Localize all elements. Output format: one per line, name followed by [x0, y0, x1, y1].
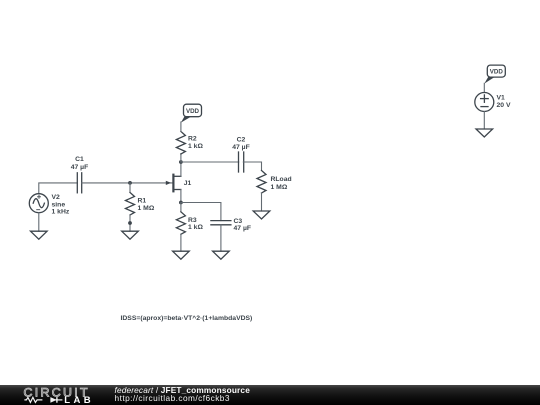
svg-text:R1: R1: [138, 197, 147, 204]
ground below RLoad: [253, 211, 270, 219]
wire from V2 top to C1 left: [39, 183, 78, 194]
wire source to C3: [181, 203, 221, 221]
VDD flag at R2: [181, 104, 202, 122]
svg-text:47 µF: 47 µF: [234, 225, 252, 232]
label R1: [138, 197, 155, 212]
wire from C1 to J1 gate: [82, 182, 173, 184]
svg-text:J1: J1: [184, 180, 192, 187]
label RLoad: [271, 176, 292, 191]
attribution text: [115, 386, 250, 403]
wire V2 bottom: [38, 213, 40, 232]
svg-text:20 V: 20 V: [497, 102, 511, 109]
ground below R1: [122, 231, 139, 239]
svg-text:VDD: VDD: [186, 108, 200, 115]
svg-text:R2: R2: [188, 136, 197, 143]
svg-text:LAB: LAB: [64, 395, 94, 405]
svg-text:1 MΩ: 1 MΩ: [271, 184, 288, 191]
ground below V1: [476, 129, 493, 137]
svg-text:V2: V2: [52, 194, 61, 201]
wire R1 bottom: [129, 215, 131, 231]
wire R2 top to VDD flag: [180, 122, 182, 132]
label R3: [188, 217, 203, 231]
label C2: [232, 137, 250, 152]
svg-text:47 µF: 47 µF: [232, 144, 250, 151]
svg-text:IDSS=(aprox)=beta·VT^2·(1+lamb: IDSS=(aprox)=beta·VT^2·(1+lambdaVDS): [121, 314, 253, 322]
wire R1 top: [129, 183, 131, 193]
svg-text:VDD: VDD: [490, 68, 504, 75]
capacitor C1: [77, 173, 81, 193]
footer bar: [0, 385, 540, 405]
wire J1 source down: [180, 190, 182, 203]
svg-text:1 kΩ: 1 kΩ: [188, 143, 203, 150]
wire V1 bottom: [483, 112, 485, 130]
svg-text:47 µF: 47 µF: [71, 164, 89, 171]
CircuitLab logo: [0, 385, 100, 405]
wire VDD to V1: [483, 83, 485, 92]
wire C3 bottom: [220, 225, 222, 251]
svg-text:1 MΩ: 1 MΩ: [138, 205, 155, 212]
svg-text:1 kΩ: 1 kΩ: [188, 224, 203, 231]
wire R3 bottom: [180, 234, 182, 251]
node at R1 bottom: [128, 221, 132, 225]
wire J1 drain up: [180, 162, 182, 176]
node source: [179, 201, 183, 205]
capacitor C3: [211, 221, 231, 225]
transistor J1: [166, 175, 181, 192]
label C3: [234, 218, 252, 232]
ground below C3: [213, 251, 230, 259]
source V2: [29, 194, 48, 213]
ground below V2: [31, 231, 48, 239]
ground below R3: [173, 251, 190, 259]
wire C2 to RLoad: [243, 162, 261, 171]
svg-text:V1: V1: [497, 95, 506, 102]
capacitor C2: [239, 152, 244, 172]
svg-text:C2: C2: [237, 137, 246, 144]
label V1: [497, 95, 511, 110]
label R2: [188, 136, 203, 151]
wire R2 bottom: [180, 154, 182, 162]
wire R3 top: [180, 203, 182, 212]
wire drain to C2: [181, 161, 239, 163]
svg-text:C1: C1: [75, 156, 84, 163]
source V1: [475, 93, 494, 112]
resistor R1: [126, 193, 135, 216]
svg-text:R3: R3: [188, 217, 197, 224]
VDD flag at V1: [484, 65, 505, 84]
node at R1 top: [128, 181, 132, 185]
label V2: [52, 194, 70, 215]
svg-text:RLoad: RLoad: [271, 176, 292, 183]
resistor RLoad: [257, 171, 266, 194]
node drain: [179, 160, 183, 164]
resistor R3: [176, 212, 185, 235]
resistor R2: [176, 132, 185, 155]
svg-text:C3: C3: [234, 218, 243, 225]
wire RLoad bottom: [261, 193, 263, 211]
label C1: [71, 156, 89, 171]
svg-text:1 kHz: 1 kHz: [52, 208, 70, 215]
